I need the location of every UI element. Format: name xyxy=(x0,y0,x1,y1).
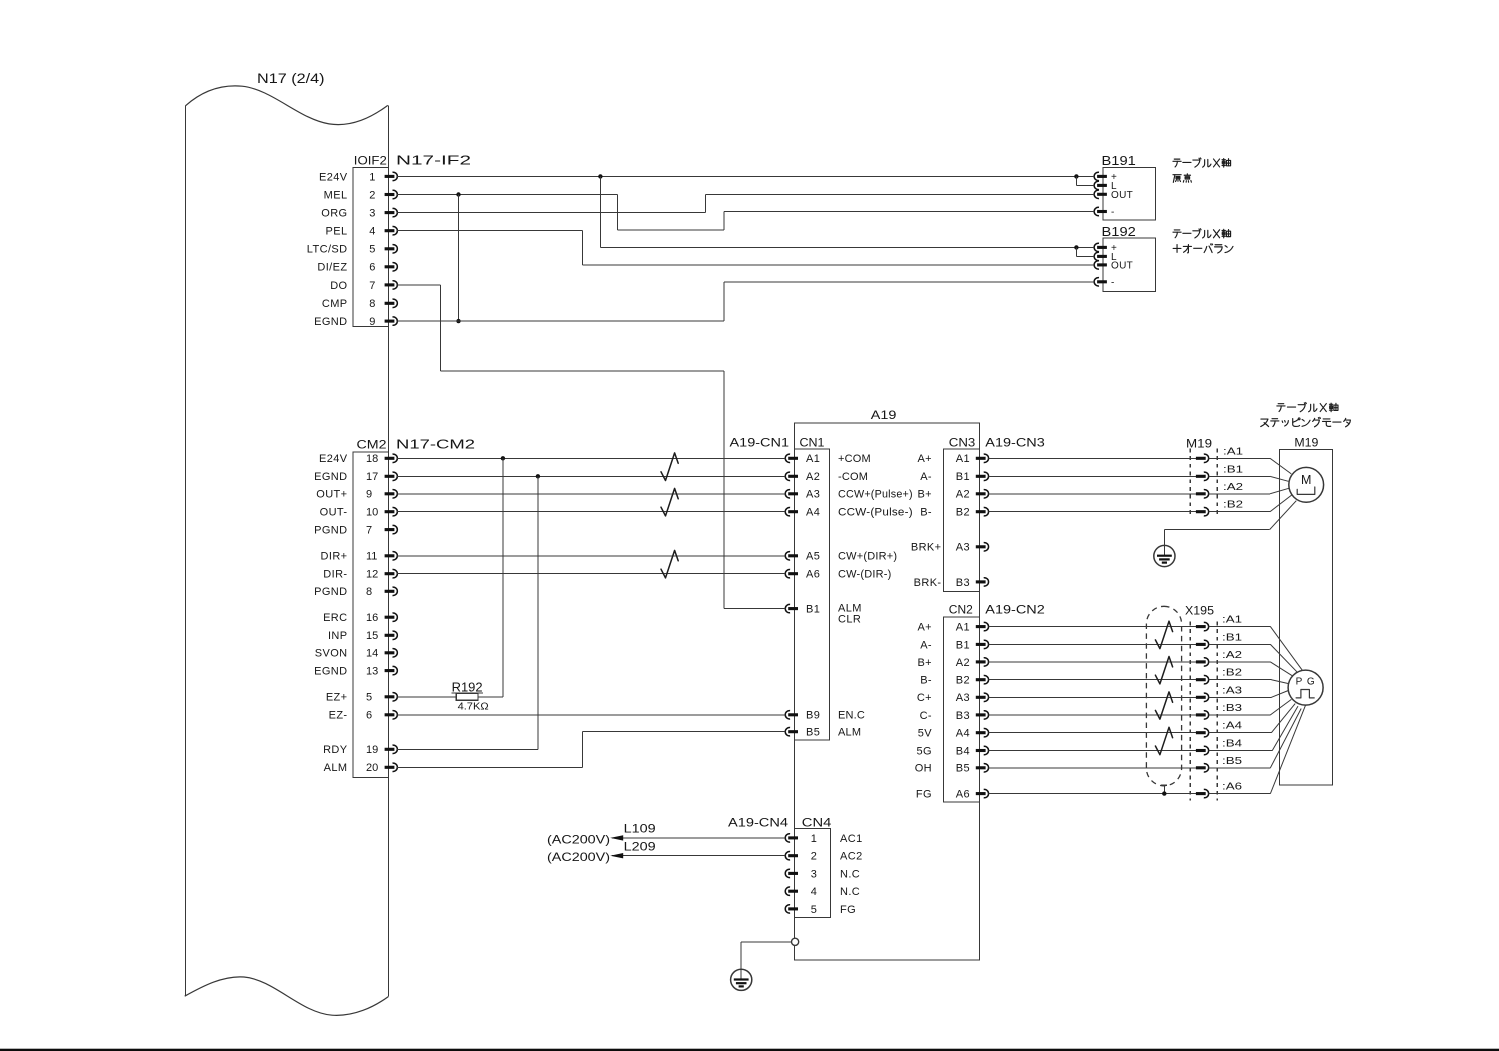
junction MEL-EGND tie top xyxy=(456,192,460,196)
svg-text:A2: A2 xyxy=(956,489,970,501)
pin CN4-2 xyxy=(788,854,798,857)
pin CN2-A1 xyxy=(976,625,986,628)
svg-text:8: 8 xyxy=(366,586,372,598)
connector M19 dashed column xyxy=(1189,449,1191,519)
wire CN2 B3 to X195 xyxy=(988,714,1196,716)
pin CN1-B9 xyxy=(788,713,798,716)
junction EZ+ column on E24V wire xyxy=(501,456,505,460)
pin CM2-7 xyxy=(385,528,395,531)
pin CN3-A1 xyxy=(976,457,986,460)
svg-text::A2: :A2 xyxy=(1222,649,1242,661)
svg-text:-: - xyxy=(1111,277,1115,288)
pin IOIF2-8 xyxy=(385,302,395,305)
pin CN3-B1 xyxy=(976,475,986,478)
svg-text:P G: P G xyxy=(1296,676,1316,687)
pin IOIF2-2 xyxy=(385,193,395,196)
wire X195 B4 to PG xyxy=(1209,750,1273,752)
twisted pair symbol pair1 xyxy=(661,453,678,481)
wire X195 A1 to PG xyxy=(1209,626,1271,628)
pin CM2-5 xyxy=(385,695,395,698)
pin CN1-A5 xyxy=(788,554,798,557)
svg-text:PEL: PEL xyxy=(326,226,348,238)
svg-text:B192: B192 xyxy=(1102,224,1136,239)
pin B192 - xyxy=(1097,280,1107,283)
pin CM2-12 xyxy=(385,572,395,575)
ground PE symbol bottom xyxy=(731,969,752,990)
svg-text:5: 5 xyxy=(811,904,817,916)
svg-text:L209: L209 xyxy=(624,839,656,853)
wire CM2-10 to CN1 A4 xyxy=(397,511,785,513)
svg-text:3: 3 xyxy=(369,208,375,220)
label origin (jp) xyxy=(1173,174,1181,176)
svg-text:N.C: N.C xyxy=(840,886,860,898)
connector CN2 box xyxy=(944,617,980,802)
pin IOIF2-4 xyxy=(385,229,395,232)
svg-text:A3: A3 xyxy=(956,692,970,704)
svg-text:5: 5 xyxy=(366,692,372,704)
svg-text:4.7KΩ: 4.7KΩ xyxy=(458,701,489,713)
wire L209 to CN4-2 xyxy=(612,855,785,857)
wire X195 A3 to PG xyxy=(1209,696,1272,698)
svg-text:N17-IF2: N17-IF2 xyxy=(396,154,471,168)
svg-text:IOIF2: IOIF2 xyxy=(354,154,387,168)
pin B191 L xyxy=(1097,184,1107,187)
wire CM2-18 to CN1 A1 xyxy=(397,457,785,459)
svg-text:LTC/SD: LTC/SD xyxy=(307,244,348,256)
junction MEL-EGND tie bottom xyxy=(456,319,460,323)
wire CN3 A2 to M19 xyxy=(988,493,1196,495)
wire CN3 A1 to M19 xyxy=(988,457,1196,459)
svg-text:CMP: CMP xyxy=(322,298,348,310)
motor symbol M circle xyxy=(1289,467,1324,502)
pin CN1-B5 xyxy=(788,730,798,733)
wire CN3 B1 to M19 xyxy=(988,475,1196,477)
svg-text:A1: A1 xyxy=(956,453,970,465)
pin CN1-A1 xyxy=(788,457,798,460)
wire ORG pin3 to B191 OUT xyxy=(397,212,705,214)
pin CM2-17 xyxy=(385,475,395,478)
connector CM2 box xyxy=(353,452,388,778)
pin CN1-A6 xyxy=(788,572,798,575)
svg-text:7: 7 xyxy=(369,280,375,292)
wire X195 B5 to PG xyxy=(1209,767,1271,769)
connector CN1 box xyxy=(794,449,829,740)
label +overrun (jp) xyxy=(1173,247,1181,249)
pin CN4-1 xyxy=(788,836,798,839)
wire X195 A2 to PG xyxy=(1209,661,1271,663)
svg-text:OUT-: OUT- xyxy=(320,507,348,519)
svg-text:1: 1 xyxy=(369,171,375,183)
resistor R192 xyxy=(456,693,478,700)
label table X axis (jp) motor xyxy=(1278,403,1284,405)
pin M19 A2 xyxy=(1196,492,1206,495)
svg-text:5G: 5G xyxy=(917,745,932,757)
label stepping motor (jp) xyxy=(1261,419,1268,426)
svg-text:SVON: SVON xyxy=(315,648,348,660)
wire motor ground to PE xyxy=(1164,529,1269,531)
svg-text:(AC200V): (AC200V) xyxy=(547,850,610,864)
twisted pair symbol X195 pair1 xyxy=(1155,621,1172,648)
svg-text:BRK-: BRK- xyxy=(914,577,942,589)
svg-text:BRK+: BRK+ xyxy=(911,542,942,554)
label table X axis (jp) for B191 xyxy=(1174,158,1180,160)
pin CN4-5 xyxy=(788,907,798,910)
svg-text:A1: A1 xyxy=(956,622,970,634)
svg-text:B-: B- xyxy=(920,507,932,519)
wire CN3 B2 to M19 xyxy=(988,511,1196,513)
wire M19 A2 to motor xyxy=(1209,493,1271,495)
wire DO pin7 to CN1 B1 xyxy=(397,284,441,286)
wire X195 A6 to PG xyxy=(1209,793,1271,795)
block N17 outline left edge xyxy=(184,106,186,996)
pin X195 B1 xyxy=(1196,643,1206,646)
encoder symbol PG circle xyxy=(1288,670,1323,705)
svg-text:9: 9 xyxy=(369,316,375,328)
svg-text:A19-CN4: A19-CN4 xyxy=(728,816,788,830)
svg-text:8: 8 xyxy=(369,298,375,310)
svg-text:13: 13 xyxy=(366,666,378,678)
terminal FG circle on A19 edge xyxy=(792,938,799,945)
wire B191 + to L tie xyxy=(1075,176,1077,185)
pin IOIF2-6 xyxy=(385,265,395,268)
svg-text:L109: L109 xyxy=(624,822,656,836)
svg-text:A6: A6 xyxy=(806,569,820,581)
svg-text:14: 14 xyxy=(366,648,378,660)
svg-text:4: 4 xyxy=(369,226,375,238)
svg-text:CLR: CLR xyxy=(838,614,861,626)
wire EZ+ pin5 to R192 xyxy=(397,696,456,698)
svg-text:PGND: PGND xyxy=(314,525,347,537)
pin M19 B1 xyxy=(1196,475,1206,478)
twisted pair symbol X195 pair3 xyxy=(1155,692,1172,719)
pin IOIF2-3 xyxy=(385,211,395,214)
svg-text::B3: :B3 xyxy=(1222,702,1242,714)
svg-text:A19-CN3: A19-CN3 xyxy=(985,436,1045,450)
junction B191 +/L tie xyxy=(1074,174,1078,178)
svg-text:EZ+: EZ+ xyxy=(326,692,348,704)
ground PE symbol near motor xyxy=(1154,545,1175,566)
wire CN2 B2 to X195 xyxy=(988,679,1196,681)
motor step glyph xyxy=(1297,487,1315,494)
pin IOIF2-1 xyxy=(385,175,395,178)
pin CN1-A3 xyxy=(788,492,798,495)
svg-text:10: 10 xyxy=(366,507,378,519)
svg-text:CCW-(Pulse-): CCW-(Pulse-) xyxy=(838,507,913,519)
pin M19 A1 xyxy=(1196,457,1206,460)
svg-text:B-: B- xyxy=(920,675,932,687)
svg-text:A4: A4 xyxy=(806,507,820,519)
svg-text:AC1: AC1 xyxy=(840,833,863,845)
svg-text:20: 20 xyxy=(366,762,378,774)
svg-text:A-: A- xyxy=(920,471,932,483)
pin IOIF2-7 xyxy=(385,283,395,286)
svg-text:EGND: EGND xyxy=(314,316,347,328)
junction B192 +/L tie xyxy=(1074,245,1078,249)
svg-text::A3: :A3 xyxy=(1222,684,1242,696)
arrow L109 xyxy=(610,835,623,840)
twisted pair symbol X195 pair4 xyxy=(1155,727,1172,754)
svg-text:4: 4 xyxy=(811,886,817,898)
pin B192 L xyxy=(1097,255,1107,258)
svg-text:A19-CN2: A19-CN2 xyxy=(985,603,1045,617)
wire CM2-9 to CN1 A3 xyxy=(397,493,785,495)
wire E24V branch down to B192 + xyxy=(599,176,601,247)
block A19 box xyxy=(794,423,979,960)
svg-text::B1: :B1 xyxy=(1223,463,1243,475)
svg-text:18: 18 xyxy=(366,453,378,465)
svg-text:(AC200V): (AC200V) xyxy=(547,832,610,846)
svg-text:11: 11 xyxy=(366,551,377,563)
svg-text:FG: FG xyxy=(840,904,856,916)
svg-text:1: 1 xyxy=(811,833,817,845)
wire CN2 A1 to X195 xyxy=(988,626,1196,628)
shield drain to FG wire xyxy=(1161,784,1167,786)
svg-text:A19: A19 xyxy=(871,408,897,422)
connector CN3 box xyxy=(944,449,980,591)
pin CN3-B2 xyxy=(976,510,986,513)
svg-text:A6: A6 xyxy=(956,789,970,801)
sensor B191 box xyxy=(1103,167,1156,220)
svg-text:C-: C- xyxy=(920,710,932,722)
pin CM2-10 xyxy=(385,510,395,513)
pin CN2-B5 xyxy=(976,766,986,769)
pin CM2-6 xyxy=(385,713,395,716)
svg-text:9: 9 xyxy=(366,489,372,501)
arrow L209 xyxy=(610,853,623,858)
junction RDY column on EGND wire xyxy=(536,474,540,478)
svg-text:C+: C+ xyxy=(917,692,932,704)
twisted pair symbol pair3 xyxy=(661,550,678,578)
pin CM2-9 xyxy=(385,492,395,495)
svg-text:PGND: PGND xyxy=(314,586,347,598)
svg-text:N17-CM2: N17-CM2 xyxy=(396,438,475,452)
pin CN1-A4 xyxy=(788,510,798,513)
svg-text:A1: A1 xyxy=(806,453,820,465)
svg-text:ERC: ERC xyxy=(323,612,347,624)
svg-text:INP: INP xyxy=(328,630,348,642)
wire ALM pin20 to CN1 B5 xyxy=(397,766,582,768)
pin CM2-14 xyxy=(385,651,395,654)
pin CM2-18 xyxy=(385,457,395,460)
svg-text:DO: DO xyxy=(330,280,347,292)
svg-text:CN2: CN2 xyxy=(949,603,973,617)
svg-text:5V: 5V xyxy=(918,728,933,740)
pin CN2-A2 xyxy=(976,660,986,663)
svg-text:OUT: OUT xyxy=(1111,261,1133,272)
page bottom border line xyxy=(0,1049,1499,1051)
svg-text:CW+(DIR+): CW+(DIR+) xyxy=(838,551,897,563)
pin CM2-13 xyxy=(385,669,395,672)
svg-text:CCW+(Pulse+): CCW+(Pulse+) xyxy=(838,489,913,501)
connector IOIF2 box xyxy=(353,168,388,327)
svg-text:OUT: OUT xyxy=(1111,190,1133,201)
wire X195 B1 to PG xyxy=(1209,643,1271,645)
pin X195 B4 xyxy=(1196,749,1206,752)
wire M19 B1 to motor xyxy=(1209,475,1271,477)
svg-text:B3: B3 xyxy=(956,710,970,722)
pin CN2-A3 xyxy=(976,696,986,699)
junction shield drain on FG wire xyxy=(1162,791,1166,795)
encoder pulse glyph xyxy=(1296,690,1314,698)
svg-text:N.C: N.C xyxy=(840,868,860,880)
pin CN4-3 xyxy=(788,872,798,875)
svg-text::A1: :A1 xyxy=(1223,445,1243,457)
block N17 torn bottom edge xyxy=(185,977,389,1015)
svg-text:B+: B+ xyxy=(917,489,932,501)
svg-text:CM2: CM2 xyxy=(357,438,387,452)
wire MEL pin2 staircase to B191 - xyxy=(397,194,617,196)
svg-text:ALM: ALM xyxy=(324,762,348,774)
svg-text::A4: :A4 xyxy=(1222,720,1242,732)
svg-text:X195: X195 xyxy=(1185,604,1214,618)
connector X195 dashed column xyxy=(1189,622,1191,801)
pin CM2-8 xyxy=(385,590,395,593)
svg-text::B5: :B5 xyxy=(1222,755,1242,767)
pin X195 A4 xyxy=(1196,731,1206,734)
svg-text:3: 3 xyxy=(811,868,817,880)
block N17 outline right edge xyxy=(387,105,389,996)
connector CN4 box xyxy=(794,829,830,918)
pin X195 B3 xyxy=(1196,713,1206,716)
wire E24V pin1 to B191 + xyxy=(397,175,1094,177)
wire M19 A1 to motor xyxy=(1209,457,1271,459)
wire PEL pin4 to B192 OUT xyxy=(397,230,583,232)
svg-text:OH: OH xyxy=(915,763,932,775)
pin CM2-20 xyxy=(385,766,395,769)
pin M19 B2 xyxy=(1196,510,1206,513)
svg-text:EGND: EGND xyxy=(314,666,347,678)
wire CN2 B4 to X195 xyxy=(988,750,1196,752)
svg-text:CW-(DIR-): CW-(DIR-) xyxy=(838,569,892,581)
svg-text:A5: A5 xyxy=(806,551,820,563)
svg-text:ORG: ORG xyxy=(321,208,347,220)
twisted pair symbol pair2 xyxy=(661,488,678,516)
junction on E24V wire xyxy=(598,174,602,178)
pin CN2-B4 xyxy=(976,749,986,752)
svg-text:RDY: RDY xyxy=(323,744,348,756)
pin X195 B2 xyxy=(1196,678,1206,681)
pin B192 OUT xyxy=(1097,263,1107,266)
svg-text:A3: A3 xyxy=(806,489,820,501)
pin CN3-A3 xyxy=(976,545,986,548)
svg-text:CN1: CN1 xyxy=(800,436,825,450)
wire B192 + to L tie xyxy=(1075,247,1077,256)
svg-text:7: 7 xyxy=(366,525,372,537)
pin CN2-B1 xyxy=(976,643,986,646)
svg-text:B1: B1 xyxy=(956,471,970,483)
svg-text:CN4: CN4 xyxy=(802,816,832,830)
svg-text:E24V: E24V xyxy=(319,171,348,183)
pin B192 + xyxy=(1097,246,1107,249)
wire CN2 B1 to X195 xyxy=(988,643,1196,645)
wire CN2 A3 to X195 xyxy=(988,696,1196,698)
svg-text:B9: B9 xyxy=(806,710,820,722)
svg-text:ALM: ALM xyxy=(838,727,861,739)
svg-text:+COM: +COM xyxy=(838,453,871,465)
block N17 torn top edge xyxy=(185,86,387,125)
svg-text:-COM: -COM xyxy=(838,471,868,483)
svg-text:A2: A2 xyxy=(956,657,970,669)
pin IOIF2-9 xyxy=(385,320,395,323)
pin CM2-11 xyxy=(385,554,395,557)
wire L109 to CN4-1 xyxy=(612,837,785,839)
svg-text:B3: B3 xyxy=(956,577,970,589)
svg-text::B4: :B4 xyxy=(1222,738,1242,750)
svg-text:17: 17 xyxy=(366,471,378,483)
svg-text:B191: B191 xyxy=(1102,153,1136,168)
svg-text:6: 6 xyxy=(366,710,372,722)
pin CN2-A4 xyxy=(976,731,986,734)
pin CM2-19 xyxy=(385,748,395,751)
svg-text:5: 5 xyxy=(369,244,375,256)
label table X axis (jp) for B192 xyxy=(1174,229,1180,231)
wire CM2-17 to CN1 A2 xyxy=(397,475,785,477)
pin B191 + xyxy=(1097,175,1107,178)
pin B191 OUT xyxy=(1097,193,1107,196)
svg-text::A2: :A2 xyxy=(1223,481,1243,493)
pin CN2-B2 xyxy=(976,678,986,681)
svg-text:E24V: E24V xyxy=(319,453,348,465)
wire MEL to EGND tie xyxy=(458,195,460,322)
svg-text:M19: M19 xyxy=(1294,436,1318,450)
svg-text:2: 2 xyxy=(811,851,817,863)
wire X195 A4 to PG xyxy=(1209,732,1272,734)
svg-text:DIR-: DIR- xyxy=(323,569,347,581)
svg-text:19: 19 xyxy=(366,744,378,756)
svg-text:B5: B5 xyxy=(806,727,820,739)
pin X195 A1 xyxy=(1196,625,1206,628)
pin CN4-4 xyxy=(788,890,798,893)
svg-text:B2: B2 xyxy=(956,507,970,519)
svg-text:15: 15 xyxy=(366,630,378,642)
svg-text:6: 6 xyxy=(369,262,375,274)
svg-text:N17 (2/4): N17 (2/4) xyxy=(257,71,325,86)
svg-text:A19-CN1: A19-CN1 xyxy=(730,436,790,450)
shield X195 dashed stadium xyxy=(1146,606,1181,786)
pin CN3-A2 xyxy=(976,492,986,495)
svg-text::B2: :B2 xyxy=(1223,499,1243,511)
wire X195 B3 to PG xyxy=(1209,714,1271,716)
pin CN3-B3 xyxy=(976,580,986,583)
svg-text:MEL: MEL xyxy=(324,189,348,201)
svg-text:B2: B2 xyxy=(956,675,970,687)
pin X195 A6 xyxy=(1196,792,1206,795)
svg-text:EGND: EGND xyxy=(314,471,347,483)
svg-text:12: 12 xyxy=(366,569,378,581)
svg-text:DI/EZ: DI/EZ xyxy=(317,262,347,274)
svg-text:M19: M19 xyxy=(1186,437,1212,451)
svg-text:A+: A+ xyxy=(917,453,932,465)
svg-text:A+: A+ xyxy=(917,622,932,634)
svg-text::A1: :A1 xyxy=(1222,614,1242,626)
wire CN2 A2 to X195 xyxy=(988,661,1196,663)
svg-text:B1: B1 xyxy=(806,604,820,616)
twisted pair symbol X195 pair2 xyxy=(1155,657,1172,684)
pin CN1-B1 xyxy=(788,607,798,610)
svg-text:R192: R192 xyxy=(452,680,483,694)
svg-text:B5: B5 xyxy=(956,763,970,775)
svg-text:2: 2 xyxy=(369,189,375,201)
pin CN2-B3 xyxy=(976,713,986,716)
wire CN2 A6 to X195 xyxy=(988,793,1196,795)
pin B191 - xyxy=(1097,210,1107,213)
svg-text:AC2: AC2 xyxy=(840,851,863,863)
wire R192 to E24V junction xyxy=(478,696,503,698)
svg-text:A4: A4 xyxy=(956,728,970,740)
wire CM2-11 to CN1 A5 xyxy=(397,555,785,557)
svg-text:OUT+: OUT+ xyxy=(316,489,347,501)
wire X195 B2 to PG xyxy=(1209,679,1272,681)
